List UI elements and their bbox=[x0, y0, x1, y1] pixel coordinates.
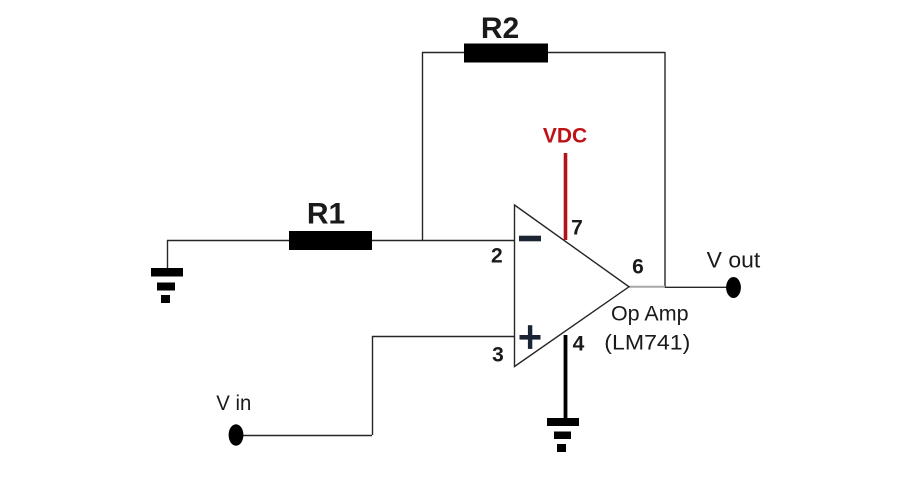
svg-text:4: 4 bbox=[573, 333, 585, 356]
svg-text:R2: R2 bbox=[481, 12, 519, 45]
svg-text:R1: R1 bbox=[307, 198, 345, 231]
svg-text:(LM741): (LM741) bbox=[604, 332, 690, 355]
svg-text:V out: V out bbox=[707, 248, 761, 273]
svg-text:7: 7 bbox=[571, 216, 583, 239]
svg-text:2: 2 bbox=[491, 245, 503, 268]
svg-text:V in: V in bbox=[216, 392, 251, 415]
svg-text:VDC: VDC bbox=[543, 125, 587, 148]
svg-text:6: 6 bbox=[632, 256, 644, 279]
svg-text:3: 3 bbox=[492, 344, 504, 367]
svg-text:Op Amp: Op Amp bbox=[611, 303, 689, 326]
